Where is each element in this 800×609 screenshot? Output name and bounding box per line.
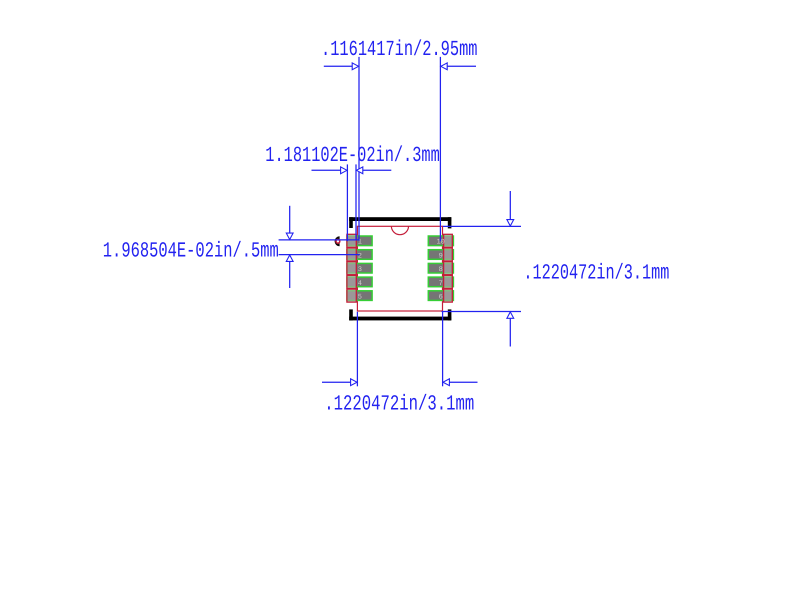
svg-text:5: 5 <box>358 294 362 302</box>
pin numbers left <box>358 239 362 302</box>
svg-text:3: 3 <box>358 266 362 274</box>
svg-text:4: 4 <box>358 280 362 288</box>
svg-text:.1220472in/3.1mm: .1220472in/3.1mm <box>523 261 669 285</box>
dimension line 2.95mm top <box>324 57 476 241</box>
package body outline black top bar <box>349 217 451 320</box>
pad 7 <box>428 277 453 287</box>
svg-text:.1220472in/3.1mm: .1220472in/3.1mm <box>324 392 474 416</box>
pin 1 marker <box>335 236 340 246</box>
svg-text:9: 9 <box>439 252 443 260</box>
arrowhead up 3.1mm right <box>507 312 514 318</box>
dimension line 0.3mm <box>312 164 392 241</box>
arrowhead up 0.5mm <box>286 255 293 261</box>
arrowhead right 0.3mm <box>341 167 347 174</box>
pad 6 <box>428 291 453 301</box>
svg-text:8: 8 <box>439 266 443 274</box>
pad 5 <box>347 291 372 301</box>
arrowhead left 0.3mm <box>356 167 362 174</box>
arrowhead right at pin1 centerline <box>352 63 358 70</box>
arrowhead left at pin10 centerline <box>441 63 447 70</box>
dimension line 0.5mm pitch <box>279 206 360 288</box>
package body outline black bottom bar <box>349 317 451 321</box>
dimension line 3.1mm bottom <box>322 312 478 387</box>
pad 4 <box>347 277 372 287</box>
svg-text:7: 7 <box>439 280 443 288</box>
assembly outline red rectangle <box>357 226 442 311</box>
svg-text:1.968504E-02in/.5mm: 1.968504E-02in/.5mm <box>103 239 279 263</box>
left paste/mask rects red <box>347 234 356 302</box>
right paste/mask rects red <box>444 234 453 302</box>
svg-text:2: 2 <box>358 252 362 260</box>
pad 10 <box>428 236 453 246</box>
pad 9 <box>428 250 453 260</box>
right pads column <box>428 236 453 300</box>
pad 2 <box>347 250 372 260</box>
dimension line 3.1mm right <box>442 191 522 347</box>
arrowhead left 3.1mm bottom <box>443 379 449 386</box>
left pads column <box>347 236 372 300</box>
svg-text:6: 6 <box>439 294 443 302</box>
pad 3 <box>347 263 372 273</box>
svg-text:1.181102E-02in/.3mm: 1.181102E-02in/.3mm <box>265 144 440 168</box>
svg-text:.1161417in/2.95mm: .1161417in/2.95mm <box>321 38 478 62</box>
pin1 notch semicircle <box>391 226 408 234</box>
arrowhead down 0.5mm <box>286 233 293 239</box>
arrowhead down 3.1mm right <box>507 220 514 226</box>
pin numbers right <box>436 239 444 302</box>
pad 1 <box>347 236 372 246</box>
pad 8 <box>428 263 453 273</box>
arrowhead right 3.1mm bottom <box>351 379 357 386</box>
